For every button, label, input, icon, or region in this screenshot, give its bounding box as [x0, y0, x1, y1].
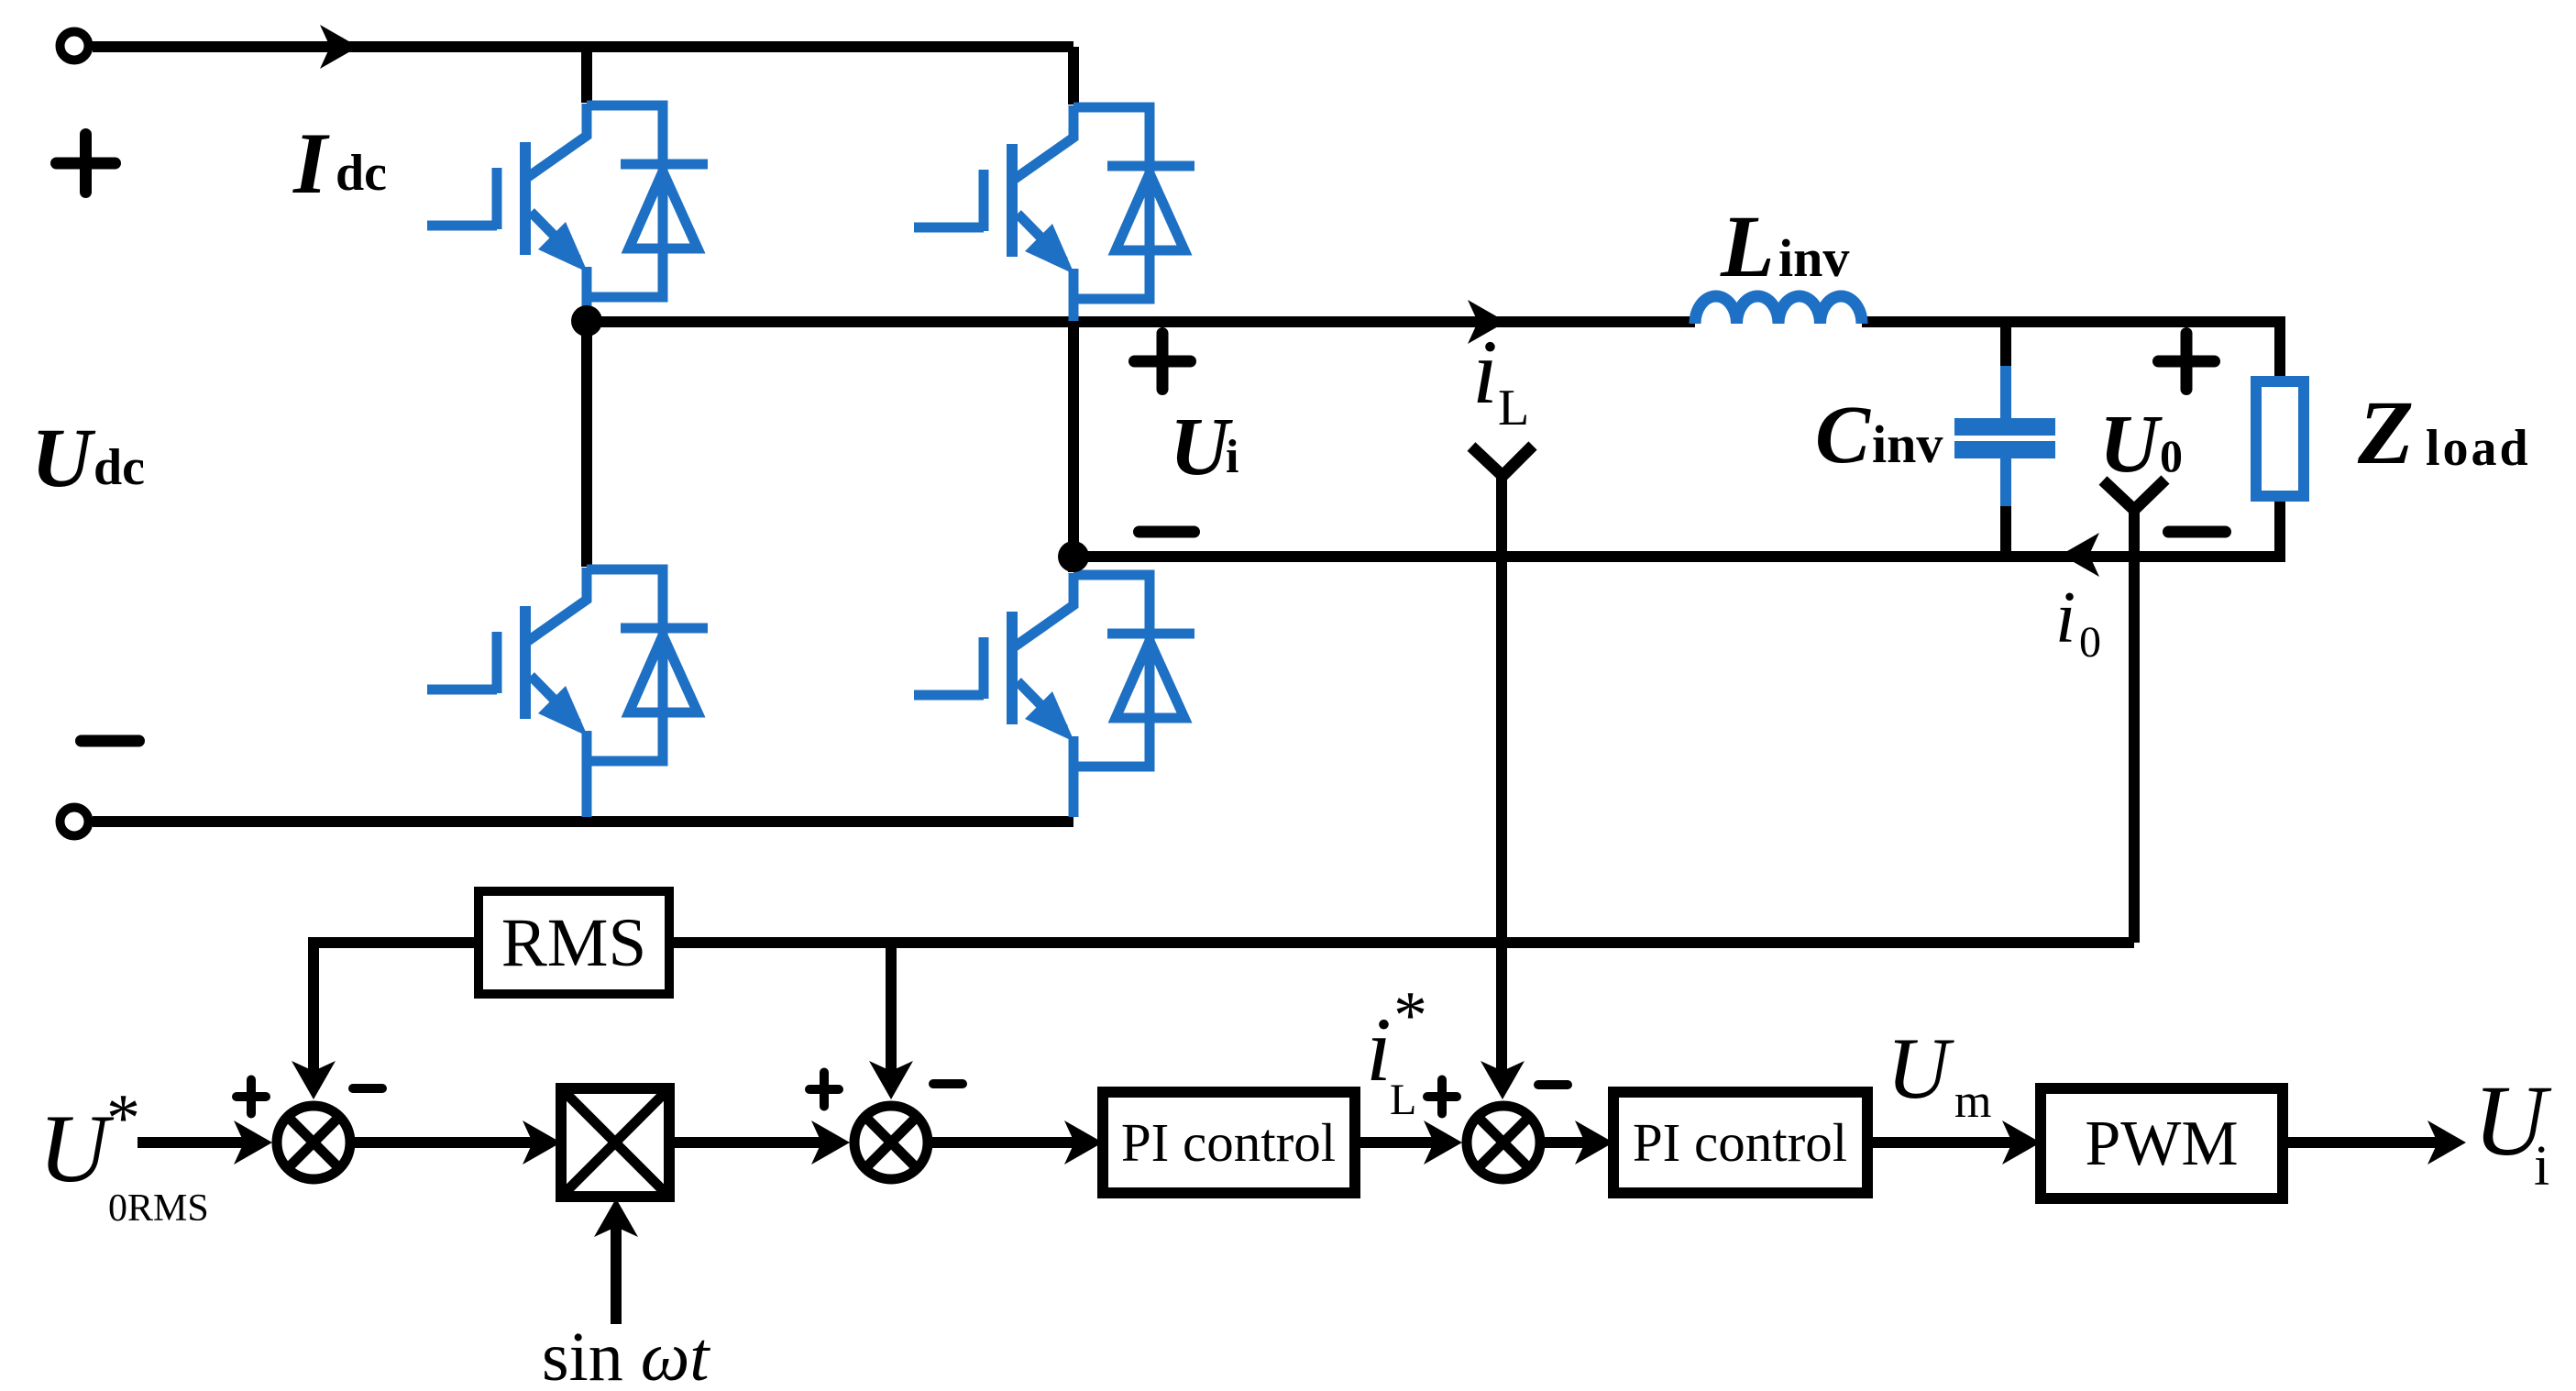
- label + (Ui): [1135, 334, 1191, 390]
- transistor Q4: [914, 573, 1194, 789]
- wire sin wt input: [611, 1227, 622, 1324]
- PI control block 1: [1103, 1092, 1355, 1193]
- wire lower output: [1073, 496, 2280, 557]
- capacitor Cinv: [1954, 366, 2055, 506]
- arrow iL measurement V: [1471, 446, 1533, 476]
- svg-text:RMS: RMS: [501, 905, 646, 981]
- arrow output Ui: [2427, 1121, 2466, 1165]
- svg-text:dc: dc: [336, 145, 387, 202]
- node B junction dot: [1058, 541, 1089, 572]
- transistor Q1: [427, 104, 708, 319]
- svg-text:*: *: [1393, 978, 1427, 1054]
- wire U* input: [138, 1137, 244, 1148]
- svg-text:U: U: [1887, 1020, 1954, 1117]
- label + (DC input): [57, 135, 116, 193]
- svg-text:i: i: [2534, 1135, 2549, 1198]
- svg-text:PI control: PI control: [1121, 1112, 1336, 1173]
- svg-text:dc: dc: [94, 439, 145, 496]
- wire PI control 1 to summer3: [1355, 1137, 1434, 1148]
- svg-text:inv: inv: [1778, 228, 1849, 288]
- svg-text:I: I: [292, 115, 330, 212]
- svg-text:0RMS: 0RMS: [108, 1187, 209, 1230]
- wire summer3 to PI control 2: [1545, 1137, 1586, 1148]
- wire PI control 2 to PWM: [1867, 1137, 2013, 1148]
- svg-text:sin ωt: sin ωt: [542, 1319, 710, 1391]
- svg-text:inv: inv: [1872, 414, 1943, 474]
- arrow U* into summer1: [234, 1121, 272, 1165]
- label + (U0): [2159, 334, 2215, 390]
- RMS block: [479, 891, 669, 994]
- arrow sin wt up into multiplier: [594, 1198, 638, 1237]
- svg-text:i: i: [2055, 578, 2075, 658]
- wire Q4 emitter to rail: [1069, 785, 1079, 817]
- wire capacitor branch stubs: [2000, 322, 2011, 557]
- label - (DC input): [82, 735, 139, 747]
- svg-text:U: U: [39, 1095, 115, 1202]
- arrow into summer2 (left side): [811, 1121, 850, 1165]
- label - (Ui): [1139, 526, 1194, 538]
- svg-text:*: *: [106, 1081, 140, 1156]
- svg-text:0: 0: [2079, 618, 2101, 667]
- svg-text:load: load: [2426, 420, 2531, 477]
- wire upper output right segment: [1862, 322, 2280, 381]
- svg-text:Z: Z: [2357, 381, 2414, 483]
- label - at summer1: [353, 1084, 382, 1093]
- wire iL sense vertical: [1496, 474, 1507, 1073]
- label - (U0): [2169, 526, 2226, 538]
- arrow into multiplier: [523, 1121, 561, 1165]
- terminal DC+: [61, 32, 89, 61]
- svg-text:i: i: [1226, 431, 1238, 483]
- wire top DC rail: [93, 41, 1073, 52]
- svg-text:U: U: [1170, 402, 1233, 492]
- wire multiplier to summer2: [669, 1137, 821, 1148]
- svg-text:PI control: PI control: [1633, 1112, 1847, 1173]
- wire leg2 top: [1068, 47, 1079, 105]
- label - at summer3: [1538, 1080, 1568, 1089]
- wire RMS to summer 1: [314, 943, 479, 1073]
- arrow U0 measurement V: [2103, 480, 2165, 510]
- arrow Idc on top rail: [320, 25, 358, 69]
- wire summer1 to multiplier: [355, 1137, 534, 1148]
- arrow into PI control 1: [1064, 1121, 1103, 1165]
- wire leg2 middle: [1068, 321, 1079, 572]
- svg-text:i: i: [1472, 321, 1498, 423]
- arrow into PI control 2: [1575, 1121, 1613, 1165]
- summer S2: [854, 1106, 928, 1179]
- svg-text:L: L: [1390, 1076, 1416, 1124]
- wire bottom DC rail: [93, 816, 1073, 827]
- arrow i0 on lower output wire: [2061, 533, 2099, 577]
- wire summer2 to PI control 1: [932, 1137, 1075, 1148]
- svg-text:PWM: PWM: [2085, 1109, 2238, 1179]
- svg-text:U: U: [2099, 399, 2163, 490]
- label + at summer2: [809, 1073, 839, 1107]
- summer S1: [277, 1106, 350, 1179]
- arrow into summer1 (down): [292, 1061, 336, 1099]
- arrow iL on upper output wire: [1468, 300, 1506, 344]
- terminal DC-: [61, 808, 89, 836]
- transistor Q3: [427, 568, 708, 783]
- arrow into summer3 (left side): [1424, 1121, 1462, 1165]
- svg-text:0: 0: [2160, 430, 2183, 481]
- arrow into summer3 (down): [1481, 1061, 1525, 1099]
- node A junction dot: [571, 305, 602, 337]
- wire Q3 emitter to rail: [582, 779, 592, 817]
- svg-text:U: U: [31, 411, 96, 504]
- wire U0 feedback to RMS: [669, 937, 2134, 948]
- transistor Q2: [914, 105, 1194, 321]
- wire PWM output: [2283, 1137, 2438, 1148]
- PI control block 2: [1613, 1092, 1867, 1193]
- resistor Zload: [2256, 381, 2304, 496]
- label - at summer2: [933, 1079, 963, 1088]
- label + at summer3: [1427, 1080, 1457, 1114]
- arrow into summer2 (down): [869, 1061, 913, 1099]
- PWM block: [2041, 1088, 2283, 1198]
- wire upper output left segment: [587, 316, 1695, 327]
- multiplier block: [561, 1088, 669, 1197]
- wire leg1 middle: [581, 322, 592, 567]
- inductor Linv: [1695, 296, 1862, 324]
- label + at summer1: [237, 1080, 266, 1114]
- wire feedback drop to summer 2: [886, 943, 897, 1073]
- arrow into PWM: [2002, 1121, 2041, 1165]
- svg-text:m: m: [1954, 1076, 1991, 1128]
- summer S3: [1467, 1106, 1540, 1179]
- svg-text:L: L: [1720, 197, 1775, 295]
- svg-text:i: i: [1366, 999, 1392, 1100]
- wire U0 sense vertical: [2129, 512, 2140, 943]
- wire leg1 top: [581, 47, 592, 103]
- svg-text:L: L: [1498, 380, 1529, 436]
- svg-text:C: C: [1815, 390, 1871, 480]
